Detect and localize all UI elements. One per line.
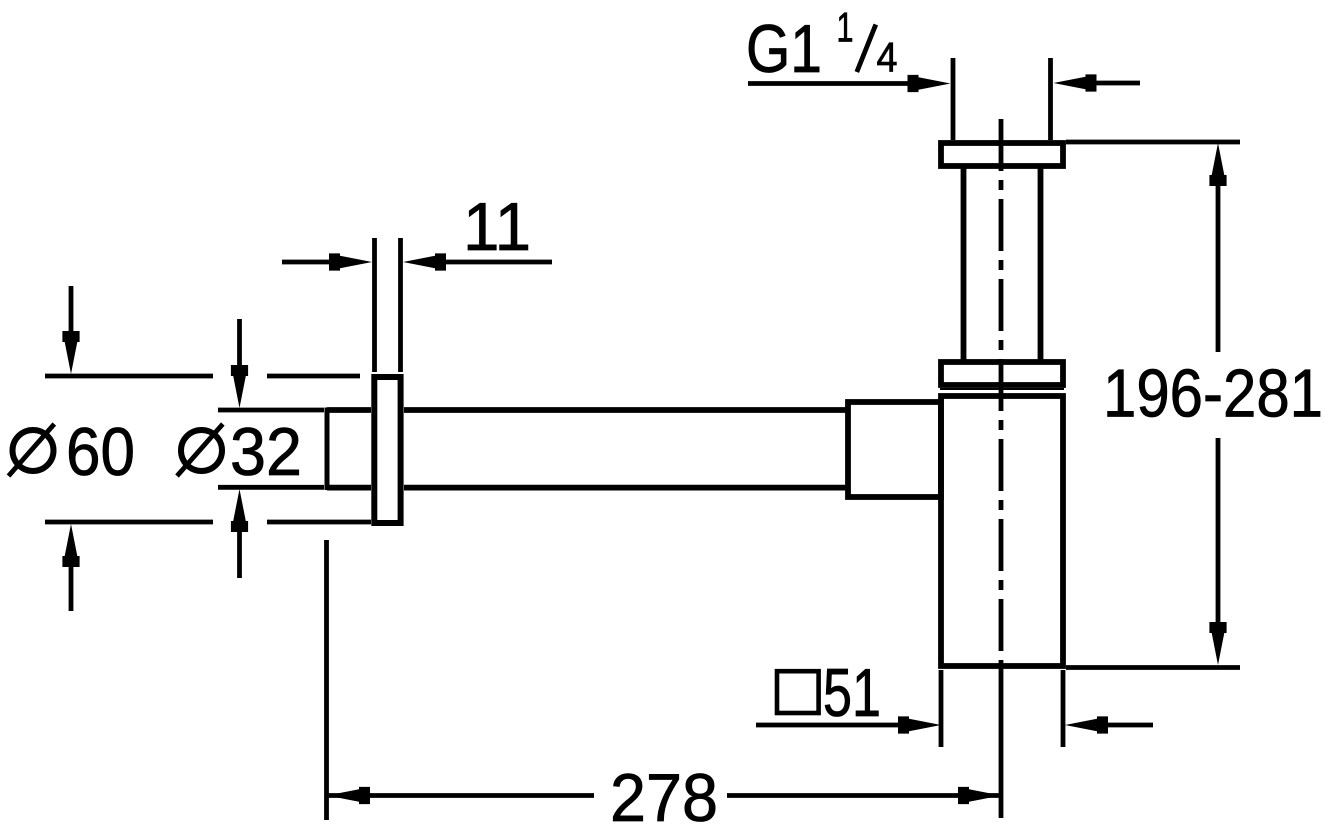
ext line right [1061,670,1066,747]
centerline extension below body [999,666,1004,818]
arrow right [403,253,446,270]
arrow left [908,75,951,92]
bottom arrow [231,489,248,532]
top line [45,374,213,379]
ext line left [951,58,956,140]
svg-text:196-281: 196-281 [1103,356,1323,432]
svg-text:1: 1 [837,4,854,51]
arrow right [1054,74,1097,91]
dim line right [1092,81,1140,86]
centerline of vertical tailpipe [999,119,1004,666]
inlet pipe bottom wall [327,485,371,491]
top arrow [62,331,79,374]
top arrow [231,365,248,408]
dim line left [327,793,594,798]
stem top [1216,180,1221,352]
ext line left [372,238,377,372]
dim line left [748,81,912,86]
wall escutcheon flange [374,377,400,523]
bottom ext to flange [267,520,371,525]
inlet pipe open end [325,408,330,491]
dim line right [1104,723,1153,728]
ext line left [939,670,944,747]
top ext [218,408,324,413]
bottom stem [237,530,242,578]
svg-text:32: 32 [230,414,302,490]
svg-text:60: 60 [66,414,135,490]
bottom stem [69,566,74,611]
bottom arrow [62,524,79,567]
arrow left [327,787,370,804]
svg-text:278: 278 [610,760,718,835]
dim line left [756,723,900,728]
ext line left [324,540,329,820]
top stem [69,286,74,336]
bottom line [45,520,213,525]
side inlet boss [848,402,941,497]
dim line right [727,793,1001,798]
arrow up [1209,143,1226,186]
label D32 [177,414,302,490]
bottom ext [218,485,324,490]
dim line right [441,260,552,265]
svg-text:11: 11 [463,189,531,265]
top ext to flange [267,374,360,379]
arrow right [1065,716,1108,733]
trap body cup [941,396,1063,666]
ext line right [1048,58,1053,140]
arrow right [958,787,1001,804]
tailpipe right wall [1038,166,1044,362]
ext line right [398,238,403,372]
inlet pipe top wall [327,407,371,413]
tailpipe left wall [961,166,967,362]
label sq51 [777,655,881,731]
dim line left [282,260,334,265]
svg-text:4: 4 [877,34,898,81]
arrow down [1209,622,1226,665]
stem bottom [1216,438,1221,626]
label D60 [9,414,136,490]
top stem [237,319,242,368]
top flange of tailpipe [941,143,1063,166]
compression nut [941,362,1063,385]
washer line under nut [940,388,1064,390]
arrow left [898,716,941,733]
svg-text:51: 51 [823,655,881,731]
arrow left [329,253,372,270]
svg-text:G1: G1 [746,11,822,87]
ext line bottom [1066,665,1240,670]
ext line top [1066,140,1240,145]
